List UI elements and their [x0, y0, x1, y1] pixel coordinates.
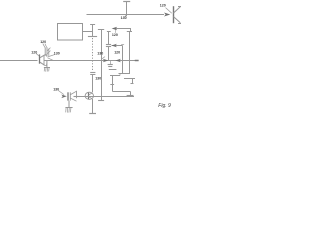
svg-text:130: 130 [53, 87, 59, 91]
svg-text:120: 120 [31, 50, 37, 54]
svg-text:130: 130 [97, 51, 103, 55]
svg-text:Fig. 9: Fig. 9 [158, 103, 171, 109]
svg-text:120: 120 [40, 40, 46, 44]
svg-text:120: 120 [112, 33, 118, 37]
svg-text:120: 120 [114, 50, 120, 54]
svg-text:120: 120 [160, 4, 166, 8]
svg-text:130: 130 [121, 16, 127, 20]
svg-text:130: 130 [95, 77, 101, 81]
svg-text:130: 130 [54, 51, 60, 55]
